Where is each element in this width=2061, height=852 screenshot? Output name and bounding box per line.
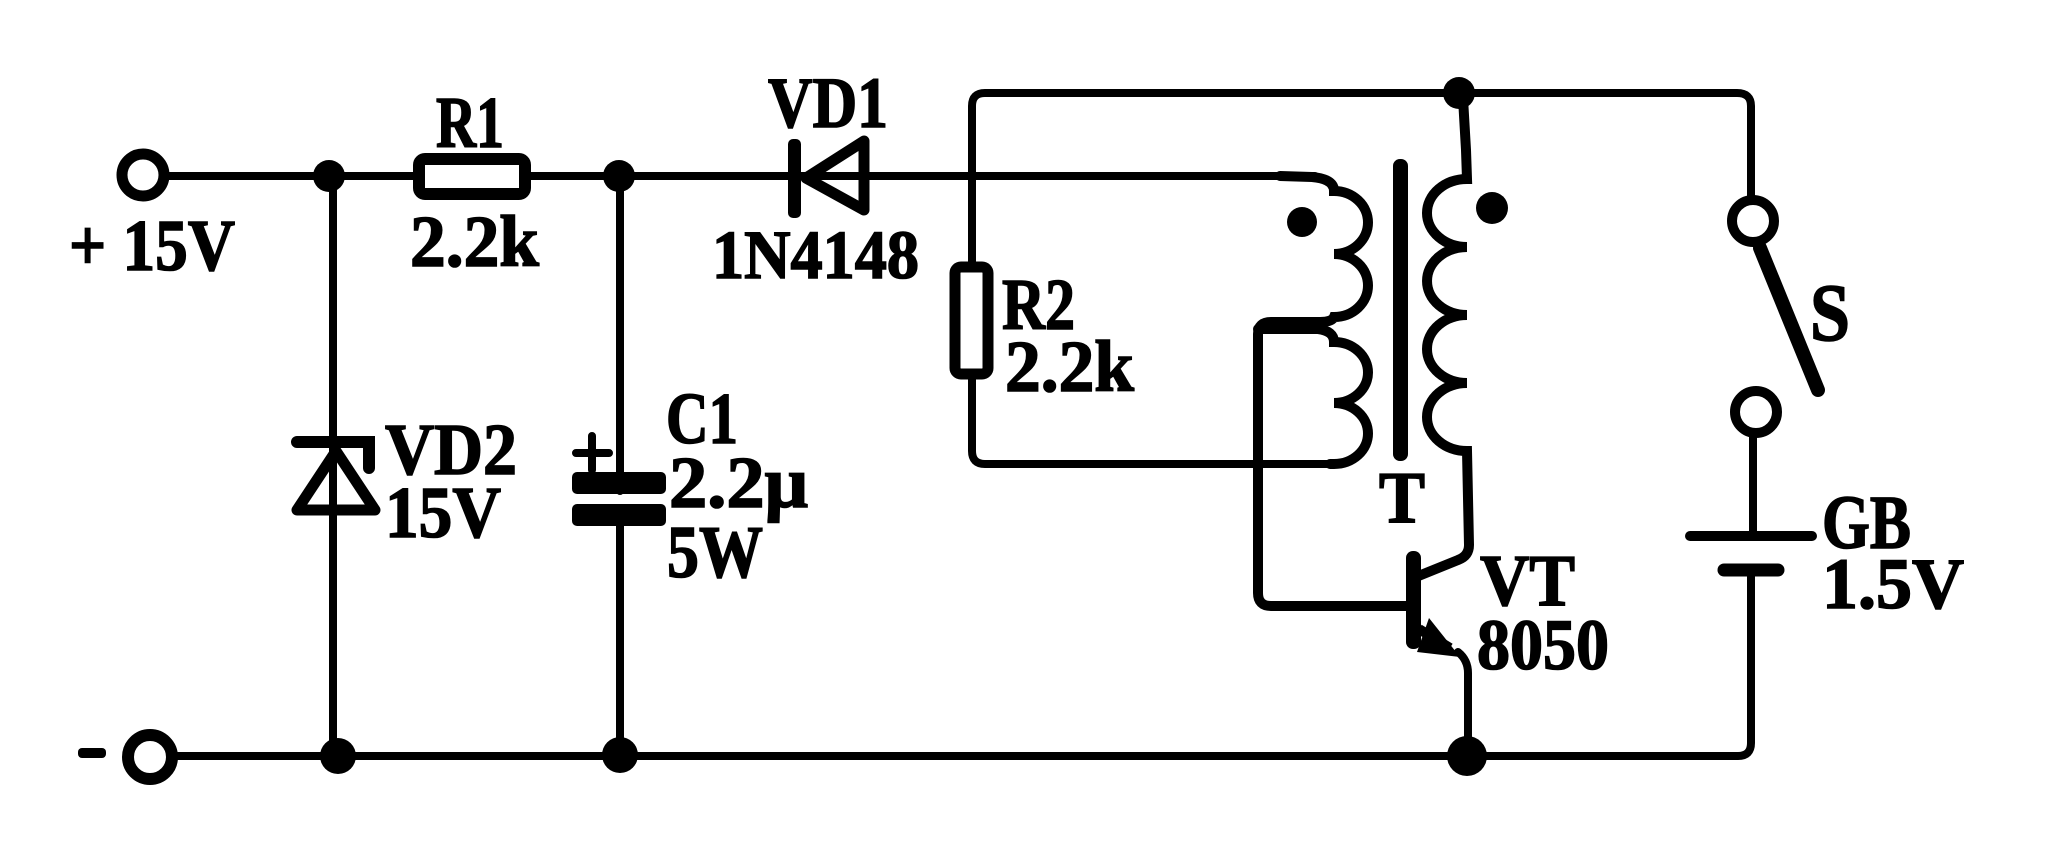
- battery GB negative plate: [1724, 564, 1778, 577]
- transistor VT emitter tail to bottom rail: [1458, 652, 1468, 754]
- transistor VT base bar: [1406, 551, 1421, 649]
- diode VD1 cathode bar: [788, 139, 801, 218]
- svg-text:T: T: [1379, 457, 1425, 538]
- wire: bottom rail (y=756) with corner up to battery: [172, 574, 1751, 756]
- svg-text:1.5V: 1.5V: [1822, 544, 1964, 624]
- zener diode VD2 triangle: [297, 451, 375, 510]
- node: junction bottom rail / VD2: [320, 738, 356, 774]
- label minus sign: [78, 748, 106, 758]
- battery GB positive plate: [1690, 531, 1812, 541]
- node: junction main rail / C1 branch: [603, 160, 635, 192]
- capacitor C1 plus sign: [576, 436, 609, 470]
- wire: VD2 branch vertical x=333: [329, 176, 337, 754]
- svg-text:15V: 15V: [385, 472, 501, 553]
- svg-text:+ 15V: + 15V: [69, 205, 235, 286]
- node: junction bottom rail / C1: [602, 737, 638, 773]
- terminal -15V (minus): [128, 735, 172, 779]
- node: junction bottom rail / emitter: [1447, 736, 1487, 776]
- terminal +15V input: [122, 154, 164, 196]
- svg-text:8050: 8050: [1477, 605, 1609, 685]
- resistor R2: [955, 267, 988, 374]
- wire: R2 bottom to lower winding bottom (y=464): [972, 378, 1336, 464]
- svg-text:2.2μ: 2.2μ: [669, 442, 808, 523]
- transformer T core bar: [1393, 159, 1408, 461]
- wire: C1 branch upper segment: [616, 176, 624, 491]
- svg-text:R1: R1: [436, 82, 504, 163]
- svg-text:5W: 5W: [667, 512, 763, 594]
- zener diode VD2 cathode bar with hook: [297, 442, 369, 468]
- switch S bottom contact: [1735, 391, 1777, 433]
- resistor R1: [419, 159, 525, 194]
- switch S blade: [1760, 248, 1818, 390]
- svg-text:2.2k: 2.2k: [410, 201, 539, 282]
- node: polarity dot right winding: [1476, 192, 1508, 224]
- node: polarity dot upper-left winding: [1287, 207, 1317, 237]
- svg-text:2.2k: 2.2k: [1005, 326, 1134, 407]
- transformer T lower-left winding: [1258, 329, 1368, 464]
- wire: top rail from R2 top up, right to switch, with corner down: [972, 93, 1751, 262]
- node: junction main rail / VD2 branch: [313, 160, 345, 192]
- svg-text:S: S: [1810, 267, 1850, 358]
- transformer T right primary winding + collector connection: [1416, 98, 1469, 577]
- diode VD1 triangle: [806, 141, 864, 210]
- wire: C1 branch lower segment: [616, 509, 624, 754]
- transistor VT emitter arrow: [1417, 618, 1460, 657]
- capacitor C1 bottom plate: [572, 504, 666, 526]
- node: junction top rail / right winding: [1443, 77, 1475, 109]
- svg-text:1N4148: 1N4148: [712, 217, 919, 293]
- wire: main +15V rail (y=176) from + terminal to transformer upper winding: [166, 172, 1315, 180]
- switch S top contact: [1732, 200, 1774, 242]
- transistor VT emitter line: [1419, 629, 1450, 648]
- transformer T upper-left feedback winding: [1258, 176, 1410, 606]
- wire: switch bottom to battery top: [1749, 437, 1757, 532]
- svg-text:VD1: VD1: [768, 63, 888, 143]
- capacitor C1 top plate: [572, 472, 666, 494]
